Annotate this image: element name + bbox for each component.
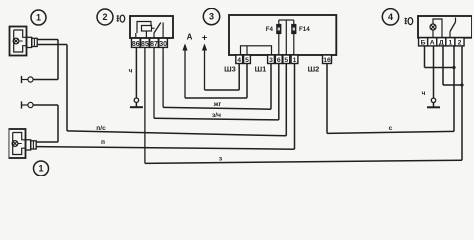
svg-text:ч: ч bbox=[422, 90, 426, 97]
svg-text:1: 1 bbox=[293, 57, 297, 64]
svg-text:2: 2 bbox=[458, 40, 462, 47]
svg-text:5: 5 bbox=[284, 57, 288, 64]
svg-text:86: 86 bbox=[132, 41, 140, 48]
svg-text:+: + bbox=[202, 33, 207, 43]
svg-text:4: 4 bbox=[237, 57, 241, 64]
svg-text:А: А bbox=[187, 33, 193, 42]
svg-text:Б: Б bbox=[421, 40, 426, 47]
svg-text:4: 4 bbox=[388, 12, 393, 22]
svg-text:30: 30 bbox=[159, 41, 167, 48]
svg-text:F4: F4 bbox=[266, 26, 274, 33]
svg-text:ч: ч bbox=[129, 68, 133, 75]
svg-text:з/ч: з/ч bbox=[212, 112, 221, 119]
svg-text:85: 85 bbox=[141, 41, 149, 48]
svg-text:3: 3 bbox=[209, 12, 214, 22]
svg-text:1: 1 bbox=[38, 164, 43, 174]
svg-text:Ш1: Ш1 bbox=[255, 65, 267, 74]
svg-text:3: 3 bbox=[269, 57, 273, 64]
svg-text:6: 6 bbox=[277, 57, 281, 64]
svg-text:п/с: п/с bbox=[96, 125, 106, 132]
svg-text:F14: F14 bbox=[299, 26, 310, 33]
svg-text:А: А bbox=[430, 40, 435, 47]
svg-text:1: 1 bbox=[36, 13, 41, 23]
svg-text:1: 1 bbox=[449, 40, 453, 47]
svg-text:16: 16 bbox=[323, 57, 331, 64]
svg-text:2: 2 bbox=[102, 12, 107, 22]
svg-text:5: 5 bbox=[245, 57, 249, 64]
svg-text:с: с bbox=[389, 125, 393, 132]
svg-text:жг: жг bbox=[213, 101, 222, 108]
svg-text:п: п bbox=[101, 139, 105, 146]
svg-text:Д: Д bbox=[439, 40, 444, 47]
svg-text:Ш2: Ш2 bbox=[308, 65, 320, 74]
svg-text:Ш3: Ш3 bbox=[224, 65, 236, 74]
svg-text:87: 87 bbox=[150, 41, 158, 48]
